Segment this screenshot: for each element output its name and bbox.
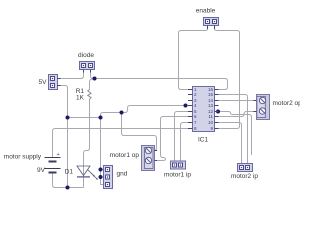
connector 5V bbox=[49, 75, 61, 90]
svg-text:9V: 9V bbox=[37, 167, 46, 174]
wire motor1 ip pin1 to IC pin5 bbox=[175, 112, 189, 162]
IC1 pin stubs left bbox=[188, 90, 193, 129]
terminal block motor1 op bbox=[142, 146, 158, 171]
wire node A to R1 top bbox=[90, 79, 95, 90]
wire 5V pin1 to diode pin1 bbox=[58, 73, 84, 79]
wire motor1 op pin2 to IC pin6 bbox=[155, 117, 189, 161]
wire battery top bbox=[52, 131, 54, 158]
wire 5V pin2 to ground rail bbox=[58, 86, 68, 188]
wire motor supply rail to IC pin8 bbox=[53, 129, 189, 132]
wire enable pin2 to IC pin9 bbox=[215, 29, 240, 129]
svg-text:15: 15 bbox=[208, 92, 214, 97]
terminal block motor2 op bbox=[254, 95, 270, 120]
junction 5V minus on gnd rail bbox=[66, 116, 70, 120]
svg-text:11: 11 bbox=[208, 114, 213, 119]
wire gnd pin1 stub bbox=[101, 169, 104, 171]
junction dots bbox=[66, 77, 221, 190]
resistor R1 bbox=[88, 90, 91, 100]
svg-text:enable: enable bbox=[196, 8, 216, 15]
wire IC pin15 to motor2 ip pin2 bbox=[219, 95, 248, 164]
wire battery bottom to ground rail bbox=[53, 173, 84, 188]
wire enable pin1 to IC pin1 bbox=[179, 29, 208, 90]
node B junction bbox=[120, 111, 124, 115]
svg-text:1K: 1K bbox=[76, 95, 85, 102]
junction gnd wire at IC pin4 bbox=[184, 104, 188, 108]
junction gnd connector pin2 bbox=[99, 175, 103, 179]
wire R1 bottom to LED anode bbox=[84, 99, 90, 177]
wire IC pin10 to motor2 ip pin1 bbox=[219, 123, 242, 164]
wire LED cathode to ground rail bbox=[83, 177, 85, 188]
wire IC pin14 to motor2 op pin1 bbox=[219, 100, 257, 102]
connector motor1 ip bbox=[171, 161, 186, 169]
wire gnd rail bbox=[68, 117, 101, 119]
svg-text:motor2 ip: motor2 ip bbox=[231, 173, 258, 180]
wire diode pin2 down to node A bbox=[91, 73, 95, 79]
svg-text:motor1 ip: motor1 ip bbox=[164, 172, 191, 179]
wire IC pin11 to motor2 op pin2 bbox=[219, 112, 257, 117]
svg-text:13: 13 bbox=[208, 103, 214, 108]
svg-text:motor1 op: motor1 op bbox=[110, 152, 140, 159]
svg-text:+: + bbox=[57, 152, 60, 158]
wire motor1 ip pin2 to IC pin7 bbox=[181, 123, 189, 162]
wire node B to motor1 op pin1 bbox=[122, 113, 157, 151]
connector enable bbox=[204, 18, 219, 30]
IC1 pin stubs right bbox=[215, 90, 219, 129]
junction battery minus on ground rail bbox=[66, 186, 70, 190]
svg-text:gnd: gnd bbox=[117, 171, 128, 178]
svg-text:motor2 op: motor2 op bbox=[273, 100, 301, 107]
IC1 body bbox=[188, 87, 219, 132]
wire node A to IC pin16 bbox=[95, 79, 228, 90]
IC1 pin numbers right bbox=[208, 87, 214, 131]
wire IC pin12 gnd branch bbox=[219, 112, 252, 156]
node A junction bbox=[93, 77, 97, 81]
svg-text:10: 10 bbox=[208, 120, 214, 125]
connector motor2 ip bbox=[238, 164, 253, 172]
svg-text:diode: diode bbox=[78, 52, 94, 59]
wire gnd pin2 stub bbox=[101, 176, 104, 178]
svg-text:IC1: IC1 bbox=[198, 137, 209, 144]
connector gnd bbox=[104, 166, 113, 189]
junction gnd connector pin1 bbox=[99, 168, 103, 172]
svg-text:5V: 5V bbox=[39, 79, 48, 86]
svg-text:D1: D1 bbox=[65, 169, 74, 176]
LED D1 bbox=[77, 166, 97, 179]
wire gnd vertical to gnd connector bbox=[101, 118, 104, 185]
junction gnd rail to gnd connector bbox=[99, 116, 103, 120]
connector diode bbox=[80, 62, 95, 73]
wire gnd staircase to IC pin4 bbox=[101, 106, 189, 118]
junction IC pin12 bbox=[216, 110, 220, 114]
IC1 pin numbers left bbox=[194, 87, 197, 131]
svg-text:motor supply: motor supply bbox=[4, 154, 42, 161]
battery motor supply bbox=[45, 158, 61, 173]
